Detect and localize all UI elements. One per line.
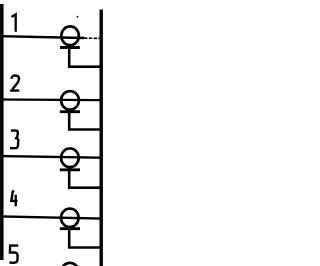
lamp L3 base [60,168,80,171]
node 1 label [12,14,16,31]
lamp L3 [61,148,79,167]
node 5 label [9,246,18,263]
wire row 4 [2,216,102,218]
wire L3 to right bus [69,170,100,188]
lamp L2 base [60,110,80,113]
lamp L2 [61,91,79,110]
wire row 1 right stub [84,37,101,39]
wire row 3 [2,156,102,158]
wire L4 to right bus [69,229,100,248]
node 2 label [10,75,19,90]
lamp L4 base [60,227,80,230]
lamp L1 base [60,46,80,49]
scan speck node [77,16,79,18]
wire L1 to right bus [69,48,100,67]
right bus wire [99,10,102,266]
lamp L4 [61,209,79,228]
wire L2 to right bus [69,112,100,130]
lamp L1 [61,26,79,45]
lamp L5 [61,263,79,266]
wire row 2 [2,98,102,101]
left bus wire [0,4,4,260]
node 3 label [10,131,18,149]
node 4 label [11,191,17,207]
wire row 1 [2,36,85,38]
